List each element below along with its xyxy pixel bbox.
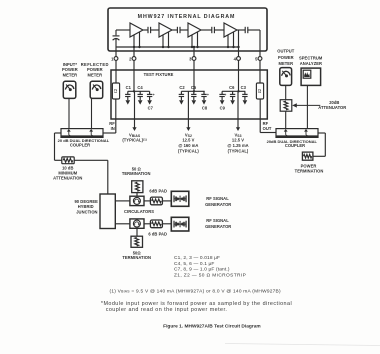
svg-text:+: +: [153, 93, 155, 97]
svg-text:C5: C5: [191, 85, 197, 90]
svg-text:(TYPICAL): (TYPICAL): [228, 149, 249, 154]
svg-text:6 dB PAD: 6 dB PAD: [148, 231, 167, 236]
svg-text:C9: C9: [220, 106, 226, 111]
svg-text:C4: C4: [137, 85, 143, 90]
svg-text:RF SIGNAL: RF SIGNAL: [206, 196, 229, 201]
svg-text:(TYPICAL): (TYPICAL): [178, 149, 199, 154]
svg-text:IN: IN: [111, 126, 115, 131]
svg-text:Figure 1. MHW927A/B Test Circu: Figure 1. MHW927A/B Test Circuit Diagram: [163, 323, 260, 329]
svg-text:TERMINATION: TERMINATION: [122, 255, 151, 260]
svg-text:JUNCTION: JUNCTION: [76, 209, 97, 214]
svg-text:C1: C1: [126, 85, 132, 90]
svg-text:(1) VBIAS = 9.5 V @ 140 mA (MH: (1) VBIAS = 9.5 V @ 140 mA (MHW927A) or …: [110, 289, 281, 295]
svg-text:Z1: Z1: [114, 89, 118, 93]
svg-text:@ 1.25 mA: @ 1.25 mA: [227, 143, 248, 148]
svg-text:METER: METER: [279, 61, 294, 66]
svg-text:RF SIGNAL: RF SIGNAL: [206, 218, 229, 223]
svg-text:+: +: [207, 93, 209, 97]
svg-text:C7, 8, 9 — 1.0 μF (tant.): C7, 8, 9 — 1.0 μF (tant.): [174, 267, 230, 273]
svg-text:C2: C2: [179, 85, 185, 90]
svg-text:@ 160 mA: @ 160 mA: [178, 143, 198, 148]
svg-text:TERMINATION: TERMINATION: [295, 168, 324, 173]
svg-text:COUPLER: COUPLER: [70, 142, 90, 147]
svg-text:ANALYZER: ANALYZER: [300, 61, 322, 66]
svg-text:+: +: [224, 93, 226, 97]
svg-text:C7: C7: [148, 106, 154, 111]
svg-text:TEST FIXTURE: TEST FIXTURE: [144, 72, 174, 77]
svg-text:OUTPUT: OUTPUT: [277, 49, 295, 54]
svg-text:GENERATOR: GENERATOR: [205, 224, 231, 229]
svg-text:POWER: POWER: [87, 67, 103, 72]
svg-text:POWER: POWER: [62, 67, 78, 72]
svg-text:12.5 V: 12.5 V: [232, 138, 244, 143]
svg-text:GENERATOR: GENERATOR: [205, 202, 231, 207]
svg-text:6dB PAD: 6dB PAD: [149, 188, 167, 193]
svg-text:TERMINATION: TERMINATION: [122, 171, 151, 176]
svg-text:POWER: POWER: [278, 55, 294, 60]
svg-text:SPECTRUM: SPECTRUM: [299, 55, 323, 60]
svg-text:12.5 V: 12.5 V: [182, 138, 194, 143]
svg-text:C8: C8: [202, 106, 208, 111]
svg-text:coupler and read on the input: coupler and read on the input power mete…: [106, 307, 228, 313]
svg-text:Z1, Z2 — 50 Ω MICROSTRIP: Z1, Z2 — 50 Ω MICROSTRIP: [174, 272, 246, 278]
svg-text:CIRCULATORS: CIRCULATORS: [124, 209, 154, 214]
svg-text:OUT: OUT: [263, 126, 272, 131]
svg-text:ATTENUATION: ATTENUATION: [53, 176, 82, 181]
svg-text:METER: METER: [88, 72, 103, 77]
svg-text:METER: METER: [63, 72, 78, 77]
svg-text:ATTENUATOR: ATTENUATOR: [318, 105, 346, 110]
svg-text:COUPLER: COUPLER: [285, 143, 305, 148]
svg-text:MHW927 INTERNAL DIAGRAM: MHW927 INTERNAL DIAGRAM: [138, 14, 236, 20]
svg-text:C1, 2, 3 — 0.018 μF: C1, 2, 3 — 0.018 μF: [174, 255, 220, 261]
svg-text:C4, 5, 6 — 0.1 μF: C4, 5, 6 — 0.1 μF: [174, 261, 215, 267]
svg-text:Z2: Z2: [258, 89, 262, 93]
svg-text:C3: C3: [241, 85, 247, 90]
svg-text:C6: C6: [229, 85, 235, 90]
